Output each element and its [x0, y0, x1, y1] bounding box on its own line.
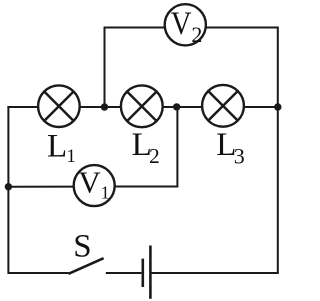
voltmeter V1: [74, 165, 115, 206]
svg-text:2: 2: [191, 22, 202, 47]
svg-text:1: 1: [101, 183, 110, 203]
wire: V1 right to vertical riser up to node B: [115, 107, 178, 187]
wire: L3 to right edge: [244, 106, 278, 108]
wire: V2 branch vertical+horizontal from L1/L2 node up to V2: [105, 28, 165, 108]
wire: switch right contact to battery: [106, 272, 142, 274]
wire: bottom left segment to switch: [8, 272, 68, 274]
svg-text:1: 1: [66, 146, 76, 167]
wire: left vertical: [7, 106, 9, 274]
wire: L2 to L3: [163, 106, 203, 108]
node D junction dot on left vertical for V1 branch: [5, 183, 12, 190]
lamp L2: [121, 85, 163, 127]
switch S blade: [69, 258, 104, 274]
node A junction dot L1-L2: [101, 103, 108, 110]
node B junction dot L2-L3: [173, 103, 180, 110]
battery cell: short negative plate: [142, 259, 145, 287]
svg-text:3: 3: [234, 143, 245, 168]
voltmeter V2: [165, 4, 206, 45]
wire: L1 to L2: [80, 106, 121, 108]
svg-text:V: V: [171, 4, 192, 41]
lamp L1: [38, 85, 80, 127]
svg-text:L: L: [47, 128, 67, 164]
lamp L3: [202, 85, 244, 127]
wire: V2 right to top-right corner and down right edge: [206, 28, 278, 274]
wire: left node to V1: [8, 186, 74, 188]
node C junction dot on right vertical: [274, 103, 281, 110]
svg-text:S: S: [73, 228, 91, 264]
wire: left stub to L1: [7, 106, 38, 108]
wire: battery to bottom-right corner: [150, 272, 278, 274]
svg-text:V: V: [78, 165, 101, 200]
battery cell: long positive plate: [149, 246, 152, 299]
svg-text:2: 2: [149, 144, 160, 168]
